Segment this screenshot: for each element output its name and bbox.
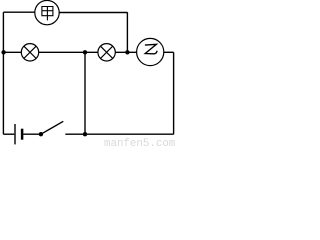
svg-text:manfen5.com: manfen5.com (104, 138, 175, 149)
